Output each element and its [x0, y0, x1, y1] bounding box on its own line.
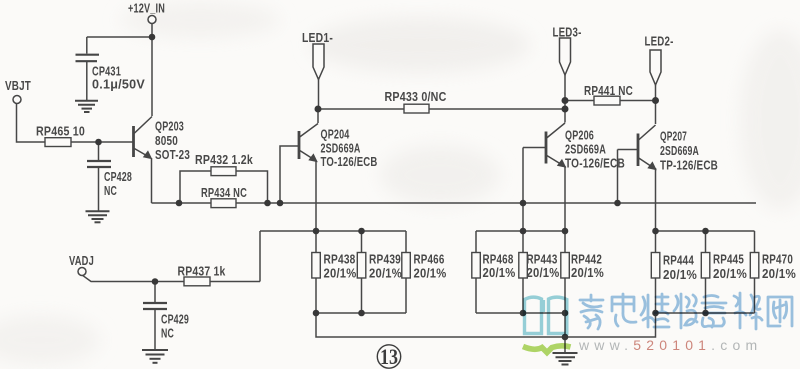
resistor RP466: [402, 253, 411, 279]
page number 13: [377, 344, 400, 369]
wire bias line y=203: [152, 202, 757, 204]
node QP203 base junction: [95, 139, 102, 146]
wire net3 top rail: [656, 230, 755, 232]
wire RP442 bottom lead: [564, 278, 566, 313]
svg-text:RP445: RP445: [713, 253, 744, 266]
svg-text:RP433 0/NC: RP433 0/NC: [385, 91, 447, 104]
node LED2: [652, 97, 659, 104]
resistor RP442: [561, 253, 570, 279]
wire CP431 top lead: [86, 37, 88, 54]
svg-text:+12V_IN: +12V_IN: [128, 2, 165, 15]
svg-text:NC: NC: [161, 327, 174, 340]
ground CP431: [75, 101, 98, 112]
terminal +12V_IN: [148, 16, 156, 24]
wire RP445 bottom lead: [705, 278, 707, 313]
wire QP207 base drop: [617, 150, 619, 204]
node net1 bottom RP438: [313, 310, 320, 317]
svg-text:SOT-23: SOT-23: [155, 149, 190, 162]
wire RP438 bottom lead: [315, 278, 317, 313]
wire RP443 bottom lead: [522, 278, 524, 313]
node RP434 left: [176, 200, 183, 207]
svg-text:LED3-: LED3-: [553, 26, 582, 39]
svg-text:VADJ: VADJ: [69, 255, 94, 268]
svg-text:VBJT: VBJT: [5, 80, 31, 93]
wire net1 top rail: [260, 230, 406, 232]
wire net3 bottom rail: [656, 312, 755, 314]
wire RP468 bottom lead: [475, 278, 477, 313]
wire QP207 collector stem: [655, 101, 657, 125]
wire ground run: [316, 313, 656, 337]
wire RP468 top lead: [475, 231, 477, 253]
resistor RP445: [701, 253, 710, 279]
svg-text:0.1μ/50V: 0.1μ/50V: [92, 78, 145, 91]
wire LED1 row to LED3: [318, 108, 565, 110]
svg-text:2SD669A: 2SD669A: [660, 145, 699, 158]
svg-text:20/1%: 20/1%: [324, 267, 357, 280]
node net2 bottom emitter: [562, 310, 569, 317]
capacitor CP429: [143, 303, 167, 309]
svg-text:13: 13: [380, 344, 398, 369]
ground CP428: [86, 211, 110, 222]
wire QP204 base: [280, 146, 299, 203]
svg-text:QP204: QP204: [321, 128, 350, 141]
svg-text:RP443: RP443: [527, 253, 558, 266]
wire QP206 base to RP443: [522, 148, 524, 254]
resistor RP432: [211, 167, 236, 176]
svg-text:20/1%: 20/1%: [663, 269, 697, 282]
wire QP204 collector stem: [317, 109, 319, 123]
wire RP444 bottom lead: [655, 278, 657, 313]
connector LED3-: [560, 38, 571, 75]
svg-text:RP470: RP470: [762, 253, 793, 266]
wire net1 bottom rail: [316, 312, 406, 314]
svg-text:RP434 NC: RP434 NC: [201, 187, 247, 200]
wire CP431 bottom lead: [86, 62, 88, 100]
wire +12V down to QP203 collector: [151, 37, 153, 116]
transistor QP206: [546, 123, 566, 168]
transistor QP204: [299, 124, 318, 163]
wire RP445 top lead: [705, 231, 707, 253]
wire QP206 collector stem: [564, 109, 566, 123]
wire VBJT stem: [17, 104, 46, 143]
node net3 rail emitter: [652, 228, 659, 235]
svg-text:RP466: RP466: [414, 253, 445, 266]
svg-text:RP437 1k: RP437 1k: [178, 265, 226, 278]
transistor QP207: [638, 125, 657, 170]
svg-text:20/1%: 20/1%: [369, 267, 402, 280]
wire RP466 top lead: [405, 231, 407, 253]
wire LED1 stem: [318, 80, 320, 110]
wire QP207 base: [618, 149, 638, 151]
node QP206 base on bias line: [520, 200, 527, 207]
svg-text:LED2-: LED2-: [645, 35, 674, 48]
node net3 bottom RP444: [652, 310, 659, 317]
resistor RP434: [211, 199, 236, 208]
wire RP466 bottom lead: [405, 278, 407, 313]
wire RP441 row: [565, 100, 656, 102]
svg-text:RP442: RP442: [571, 253, 602, 266]
svg-text:TO-126/ECB: TO-126/ECB: [321, 156, 378, 169]
svg-text:NC: NC: [104, 185, 117, 198]
wire +12V to CP431: [87, 36, 152, 38]
wire RP439 bottom lead: [361, 278, 363, 313]
resistor RP465: [45, 138, 71, 147]
node net2 rail RP443: [520, 228, 527, 235]
node QP207 base on bias line: [614, 200, 621, 207]
terminal VADJ: [78, 268, 86, 276]
capacitor CP431: [76, 55, 100, 62]
node net1 rail emitter: [313, 228, 320, 235]
svg-text:RP432 1.2k: RP432 1.2k: [195, 154, 253, 167]
svg-text:8050: 8050: [155, 135, 178, 148]
node net1 bottom RP439: [358, 310, 365, 317]
svg-text:2SD669A: 2SD669A: [565, 143, 606, 156]
svg-text:QP207: QP207: [660, 130, 687, 143]
wire CP428 top lead: [98, 142, 100, 160]
wire RP432 loop: [180, 171, 268, 203]
capacitor CP428: [87, 161, 111, 167]
ground main: [553, 353, 578, 365]
svg-text:CP429: CP429: [161, 313, 189, 326]
svg-text:TP-126/ECB: TP-126/ECB: [660, 159, 718, 172]
svg-text:CP431: CP431: [92, 65, 121, 78]
resistor RP438: [312, 253, 321, 279]
wire RP470 top lead: [754, 231, 756, 253]
svg-text:20/1%: 20/1%: [527, 267, 560, 280]
svg-text:20/1%: 20/1%: [762, 268, 796, 281]
wire CP429 top lead: [154, 282, 156, 303]
watermark logo book: [523, 297, 571, 352]
wire RP470 bottom lead: [754, 278, 756, 313]
svg-text:CP428: CP428: [104, 171, 132, 184]
node LED3 upper: [562, 97, 569, 104]
ground CP429: [142, 350, 168, 363]
watermark text jiadian weixiu ziliao wang: [580, 293, 792, 329]
node RP434 right: [264, 200, 271, 207]
node LED1: [315, 106, 322, 113]
watermark url www.520101.com: [578, 337, 762, 353]
node net2 bottom RP443: [520, 310, 527, 317]
wire CP428 bottom lead: [98, 167, 100, 211]
resistor RP433: [404, 104, 429, 113]
wire net2 rail to ground: [564, 313, 566, 337]
wire net2 top rail: [476, 230, 565, 232]
svg-text:20/1%: 20/1%: [713, 268, 747, 281]
transistor QP203: [134, 117, 153, 160]
wire CP429 bottom lead: [154, 309, 156, 349]
wire VADJ to RP437: [83, 275, 261, 281]
svg-text:LED1-: LED1-: [302, 32, 333, 45]
svg-text:RP441 NC: RP441 NC: [584, 85, 633, 98]
wire RP437 up to net1 rail: [259, 231, 261, 282]
svg-text:TO-126/ECB: TO-126/ECB: [565, 157, 625, 170]
connector LED1-: [313, 44, 324, 80]
svg-text:RP465 10: RP465 10: [36, 125, 85, 138]
node net1 rail RP439: [358, 228, 365, 235]
wire QP204 emitter drop: [315, 161, 317, 253]
svg-text:RP438: RP438: [324, 253, 356, 266]
wire QP207 emitter drop: [655, 168, 657, 253]
watermark logo swoosh: [523, 346, 571, 353]
wire +12V stem: [151, 24, 153, 38]
svg-text:RP439: RP439: [369, 253, 401, 266]
resistor RP444: [651, 253, 660, 279]
resistor RP470: [750, 253, 759, 279]
node net3 rail RP445: [702, 228, 709, 235]
wire ground stem: [564, 337, 566, 352]
wire QP206 emitter drop: [564, 166, 566, 253]
resistor RP441: [594, 96, 620, 105]
wire RP465 to QP203 base: [71, 141, 133, 143]
svg-text:20/1%: 20/1%: [571, 267, 604, 280]
resistor RP468: [472, 253, 481, 279]
wire net2 bottom rail: [476, 312, 565, 314]
resistor RP439: [357, 253, 366, 279]
node net2 rail emitter: [562, 228, 569, 235]
svg-text:RP468: RP468: [483, 253, 514, 266]
wire RP439 top lead: [361, 231, 363, 253]
terminal VBJT: [13, 96, 21, 104]
node VADJ junction: [152, 278, 159, 285]
svg-text:RP444: RP444: [663, 254, 694, 267]
wire LED2 stem: [655, 85, 657, 101]
node LED3 lower: [562, 106, 569, 113]
svg-text:20/1%: 20/1%: [414, 267, 447, 280]
svg-text:QP206: QP206: [565, 129, 594, 142]
wire QP203 emitter drop: [151, 158, 153, 203]
wire QP206 base: [523, 147, 545, 149]
resistor RP443: [519, 253, 528, 279]
node +12V junction: [149, 34, 156, 41]
svg-text:www.520101.com: www.520101.com: [578, 337, 762, 353]
connector LED2-: [650, 50, 661, 85]
node net3 bottom RP445: [702, 310, 709, 317]
wire LED3 stem: [564, 75, 566, 109]
svg-text:2SD669A: 2SD669A: [321, 142, 361, 155]
svg-text:20/1%: 20/1%: [483, 267, 516, 280]
node ground junction: [562, 334, 569, 341]
svg-text:QP203: QP203: [155, 120, 184, 133]
node QP204 base drop: [277, 200, 284, 207]
resistor RP437: [184, 277, 210, 286]
